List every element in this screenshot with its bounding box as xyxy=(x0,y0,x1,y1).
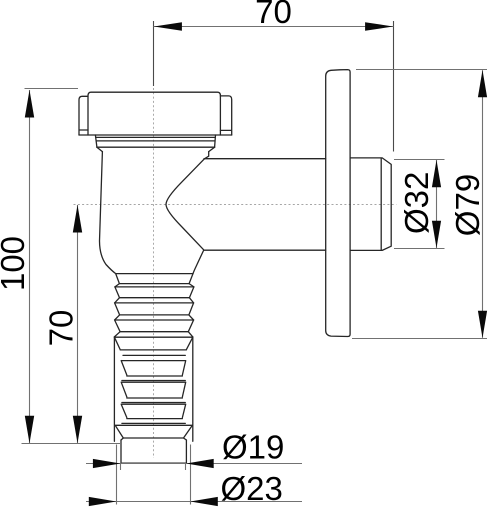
svg-text:Ø23: Ø23 xyxy=(221,470,283,507)
svg-text:Ø79: Ø79 xyxy=(449,174,486,236)
svg-text:Ø32: Ø32 xyxy=(398,172,435,234)
svg-text:100: 100 xyxy=(0,236,31,291)
svg-text:70: 70 xyxy=(255,0,292,30)
svg-text:Ø19: Ø19 xyxy=(222,429,284,466)
svg-text:70: 70 xyxy=(43,310,80,347)
